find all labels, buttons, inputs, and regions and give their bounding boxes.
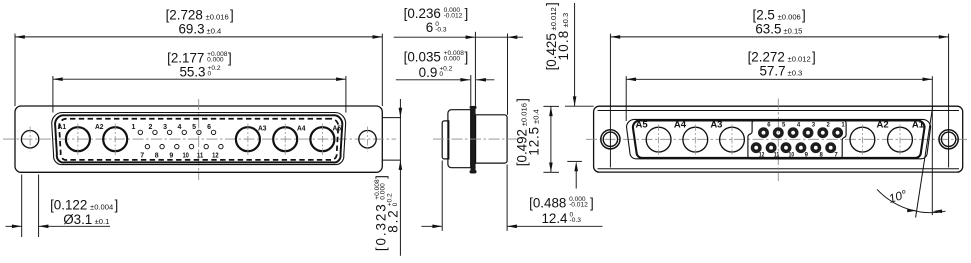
- svg-text:[0.122: [0.122: [50, 198, 87, 213]
- rear shell outer outline: [627, 119, 931, 158]
- svg-text:]: ]: [590, 196, 594, 211]
- svg-text:0.9: 0.9: [419, 65, 438, 80]
- svg-text:]: ]: [464, 50, 468, 65]
- svg-text:±0.016: ±0.016: [206, 13, 229, 22]
- extension line flange rear face: [474, 32, 476, 107]
- svg-text:A2: A2: [877, 120, 889, 131]
- dimension line 8.2 vertical: [399, 99, 401, 256]
- extension line flange front face: [470, 75, 472, 106]
- power contact A3: [236, 127, 260, 151]
- svg-text:-0.3: -0.3: [435, 26, 447, 33]
- svg-text:11: 11: [774, 152, 780, 158]
- svg-text:]: ]: [230, 8, 234, 23]
- power contact A1: [66, 127, 90, 151]
- power contact A2 rear: [850, 127, 875, 152]
- svg-text:12: 12: [759, 152, 765, 158]
- insulator dashed outline: [59, 119, 338, 160]
- svg-text:Ø3.1: Ø3.1: [63, 212, 92, 227]
- dimension Ø3.1 extension lines: [21, 175, 23, 238]
- svg-text:±0.006: ±0.006: [778, 13, 801, 22]
- svg-text:6: 6: [207, 124, 211, 131]
- left mounting hole (double): [601, 130, 620, 149]
- solder cup contacts row 12-7: [753, 144, 760, 151]
- right mounting hole: [359, 131, 376, 148]
- svg-text:A1: A1: [912, 120, 925, 131]
- svg-text:57.7: 57.7: [759, 64, 785, 79]
- svg-text:±0.15: ±0.15: [783, 26, 802, 35]
- power contact A4 rear: [683, 127, 708, 152]
- power contact A1 rear: [888, 127, 913, 152]
- svg-text:2: 2: [149, 124, 153, 131]
- inner offset lines: [598, 110, 960, 112]
- dimension 12.4 extension lines: [441, 161, 443, 231]
- dim text [0.492 ±0.016] rotated: [514, 98, 529, 166]
- dimension 10.8 line: [574, 3, 576, 106]
- svg-text:]: ]: [812, 50, 816, 65]
- svg-text:10: 10: [789, 152, 795, 158]
- svg-text:1: 1: [131, 124, 135, 131]
- dimension line 12.4: [421, 225, 442, 227]
- main horizontal centerline left view: [3, 138, 396, 140]
- svg-text:63.5: 63.5: [755, 21, 781, 36]
- svg-text:-0.012: -0.012: [569, 202, 588, 209]
- svg-text:±0.4: ±0.4: [207, 26, 222, 35]
- svg-text:5: 5: [192, 124, 196, 131]
- side view: flange (section): [471, 106, 475, 173]
- svg-text:[2.177: [2.177: [167, 51, 204, 66]
- extension of flange top edge: [565, 105, 594, 107]
- svg-text:0.000: 0.000: [444, 56, 461, 63]
- svg-text:]: ]: [114, 198, 118, 213]
- svg-text:]: ]: [228, 51, 232, 66]
- power contact A5: [310, 127, 334, 151]
- svg-text:0.000: 0.000: [207, 57, 224, 64]
- svg-text:[0.236: [0.236: [404, 6, 441, 21]
- svg-text:±0.3: ±0.3: [788, 69, 803, 78]
- vertical centerline left view: [198, 99, 200, 180]
- svg-text:A5: A5: [333, 124, 342, 133]
- svg-text:7: 7: [140, 152, 144, 159]
- svg-text:6: 6: [426, 20, 433, 35]
- dimension line 69.3: [15, 36, 382, 38]
- main horizontal centerline right view: [586, 138, 967, 140]
- dimension 6 line: [394, 36, 523, 38]
- side view centerline: [433, 138, 520, 140]
- svg-text:9: 9: [169, 152, 173, 159]
- svg-text:12.4: 12.4: [541, 211, 568, 226]
- svg-text:10.8: 10.8: [556, 30, 571, 61]
- dim text 10.8 ±0.3 rotated: [556, 13, 571, 61]
- lower reference stub and arrow: [567, 160, 582, 162]
- text 10°: [887, 187, 909, 206]
- dimension line 63.5: [610, 36, 948, 38]
- svg-text:69.3: 69.3: [178, 21, 204, 36]
- svg-text:±0.012: ±0.012: [788, 55, 811, 64]
- dim text [0.425 ±0.012] rotated: [544, 2, 559, 70]
- side view: rear insulator body: [476, 115, 508, 163]
- 10 degree arc: [877, 189, 946, 212]
- dim text 12.5 ±0.4 rotated: [527, 109, 542, 155]
- svg-text:±0.4: ±0.4: [532, 109, 541, 124]
- svg-text:0: 0: [208, 71, 212, 78]
- svg-text:A4: A4: [297, 124, 306, 133]
- svg-text:±0.1: ±0.1: [95, 217, 110, 226]
- solder cup contacts row 6-1: [760, 129, 767, 136]
- svg-text:4: 4: [178, 124, 182, 131]
- svg-text:55.3: 55.3: [179, 64, 205, 79]
- svg-text:A5: A5: [636, 120, 649, 131]
- svg-text:8: 8: [155, 152, 159, 159]
- svg-text:3: 3: [163, 124, 167, 131]
- vertical centerline right view: [777, 99, 779, 182]
- svg-text:]: ]: [514, 98, 529, 102]
- svg-text:±0.016: ±0.016: [519, 103, 528, 126]
- svg-text:[2.5: [2.5: [753, 8, 775, 23]
- dimension 8.2 extension lines: [382, 117, 401, 119]
- signal contacts row 1-6: [138, 130, 142, 134]
- rear shell thick inner outline: [633, 120, 925, 158]
- svg-text:±0.004: ±0.004: [90, 203, 113, 212]
- svg-text:]: ]: [802, 8, 806, 23]
- dimension line 57.7: [626, 78, 932, 80]
- svg-text:0: 0: [439, 71, 443, 78]
- dimension line Ø3.1: [6, 225, 22, 227]
- dim text [0.323 +0.008/0.000] rotated: [373, 175, 388, 251]
- svg-text:[0.035: [0.035: [404, 50, 441, 65]
- svg-text:A3: A3: [258, 124, 267, 133]
- dimension line 55.3: [53, 78, 346, 80]
- svg-text:A1: A1: [58, 122, 67, 131]
- svg-text:-0.3: -0.3: [570, 217, 582, 224]
- power contact A3 rear: [720, 127, 745, 152]
- svg-text:0: 0: [392, 202, 399, 206]
- dimension 55.3 extension lines: [52, 76, 54, 113]
- svg-text:]: ]: [544, 2, 559, 6]
- D-shell outer thin outline: [52, 113, 346, 165]
- svg-text:12.5: 12.5: [527, 126, 542, 156]
- side view: mating face step: [442, 121, 449, 159]
- left mounting hole: [21, 131, 38, 148]
- svg-text:A3: A3: [710, 120, 722, 131]
- side view: shell front body: [448, 110, 471, 168]
- signal contacts row 7-12: [145, 144, 149, 148]
- svg-text:±0.3: ±0.3: [561, 13, 570, 28]
- dimension 12.5 stubs and line: [543, 105, 559, 107]
- svg-text:12: 12: [212, 152, 219, 159]
- right mounting hole (double): [939, 130, 958, 149]
- svg-text:±0.012: ±0.012: [549, 7, 558, 30]
- dimension 57.7 extension lines: [625, 76, 627, 121]
- side view: flange bottom cap: [470, 170, 477, 173]
- svg-text:8.2: 8.2: [386, 208, 401, 232]
- power contact A4: [273, 127, 297, 151]
- dimension 0.9 lines: [396, 79, 470, 81]
- dim text 8.2 +0.2/0 rotated: [386, 193, 401, 233]
- power contact A2: [103, 127, 127, 151]
- D-shell thick inner outline: [55, 115, 342, 162]
- right connector rear view: flange outline: [594, 106, 963, 172]
- svg-text:[2.272: [2.272: [748, 50, 785, 65]
- left connector front view: flange outline: [15, 106, 382, 172]
- svg-text:-0.012: -0.012: [444, 12, 463, 19]
- dimension 63.5 extension lines: [609, 34, 611, 168]
- svg-text:10: 10: [182, 152, 189, 159]
- svg-text:[0.488: [0.488: [529, 196, 566, 211]
- svg-text:]: ]: [464, 6, 468, 21]
- svg-text:11: 11: [197, 152, 204, 159]
- 10 degree draft line: [916, 107, 933, 217]
- extension line body rear face: [507, 34, 509, 115]
- insulator block outline: [748, 120, 846, 159]
- dimension 69.3 extension lines: [14, 34, 16, 106]
- svg-text:A2: A2: [95, 122, 104, 131]
- svg-text:]: ]: [373, 175, 388, 179]
- side view: flange top cap: [470, 106, 477, 109]
- svg-text:A4: A4: [674, 120, 687, 131]
- power contact A5 rear: [646, 127, 671, 152]
